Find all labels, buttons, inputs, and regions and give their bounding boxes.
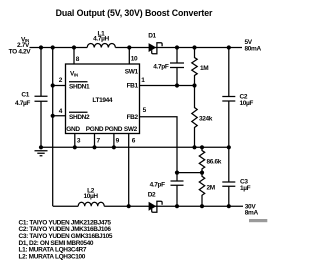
svg-text:Dual Output (5V, 30V) Boost Co: Dual Output (5V, 30V) Boost Converter — [56, 8, 213, 18]
svg-text:4.7µF: 4.7µF — [15, 100, 30, 107]
svg-text:PGND: PGND — [105, 126, 123, 133]
svg-text:1M: 1M — [200, 65, 208, 72]
svg-text:L2: MURATA LQH3C100: L2: MURATA LQH3C100 — [19, 254, 86, 261]
svg-text:324k: 324k — [199, 116, 213, 123]
svg-text:10µF: 10µF — [240, 100, 254, 107]
svg-text:GND: GND — [66, 126, 80, 133]
svg-text:4.7µH: 4.7µH — [93, 36, 109, 43]
svg-text:8mA: 8mA — [245, 210, 259, 217]
svg-text:C1: C1 — [21, 92, 29, 99]
svg-text:4.7pF: 4.7pF — [150, 182, 166, 189]
svg-text:SW2: SW2 — [124, 126, 138, 133]
svg-text:86.6k: 86.6k — [207, 159, 222, 166]
svg-text:LT1944: LT1944 — [92, 97, 113, 104]
svg-text:FB1: FB1 — [127, 82, 139, 89]
svg-text:80mA: 80mA — [245, 45, 262, 52]
svg-text:4.7pF: 4.7pF — [153, 64, 169, 71]
svg-text:10: 10 — [131, 56, 138, 63]
svg-text:D1: D1 — [148, 32, 156, 39]
svg-text:SHDN2: SHDN2 — [69, 114, 90, 121]
svg-text:PGND: PGND — [86, 126, 104, 133]
svg-text:TO 4.2V: TO 4.2V — [9, 49, 32, 56]
svg-text:FB2: FB2 — [127, 114, 139, 121]
svg-text:SW1: SW1 — [125, 68, 139, 75]
svg-text:2M: 2M — [207, 185, 215, 192]
svg-text:10µH: 10µH — [83, 193, 98, 200]
svg-text:SHDN1: SHDN1 — [69, 83, 90, 90]
svg-text:D2: D2 — [148, 192, 156, 199]
svg-text:1µF: 1µF — [240, 185, 251, 192]
